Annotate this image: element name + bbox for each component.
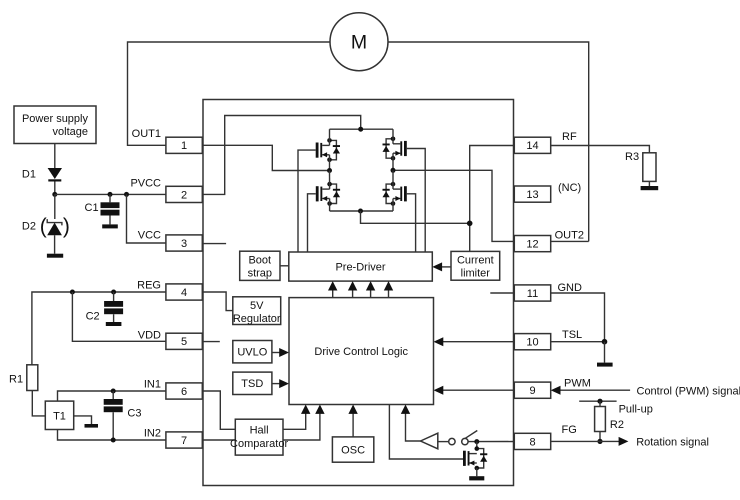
- svg-text:Rotation signal: Rotation signal: [636, 436, 709, 448]
- arrow into pre-driver 3: [366, 281, 375, 290]
- arrow into pre-driver 4: [384, 281, 393, 290]
- wire R3 to ground: [648, 181, 650, 186]
- diode D2 (zener, optional): [22, 215, 70, 254]
- svg-text:1: 1: [181, 140, 187, 152]
- wire pull-up supply bar: [579, 400, 616, 402]
- wire hall comparator out 1: [283, 413, 306, 430]
- wire OSC to logic: [352, 413, 354, 437]
- UVLO box U6: [233, 341, 272, 363]
- wire R1 to T1: [32, 391, 45, 416]
- Boot strap box U2: [240, 251, 280, 280]
- node pull-up top: [597, 399, 602, 404]
- arrow into pre-driver 1: [328, 281, 337, 290]
- arrow into logic (hall 1): [301, 405, 310, 414]
- wire PVCC internal feed: [202, 116, 360, 195]
- svg-text:R1: R1: [9, 374, 23, 386]
- wire current sense to node: [361, 211, 470, 223]
- wire Q3 gate: [407, 149, 425, 253]
- node VCC branch junction: [124, 192, 129, 197]
- svg-text:): ): [63, 215, 70, 238]
- wire logic to pre-driver 3: [370, 289, 372, 298]
- svg-text:D2: D2: [22, 221, 36, 233]
- wire FG node down to Q5: [476, 442, 478, 449]
- node current sense junction: [467, 221, 473, 227]
- Hall Comparator box U9: [230, 419, 288, 455]
- wire VDD internal stub: [202, 341, 220, 343]
- svg-text:RF: RF: [562, 131, 577, 143]
- switch S1: [449, 431, 478, 445]
- node C1 junction: [108, 192, 113, 197]
- ground below D2: [47, 254, 63, 258]
- wire Q3 source to mid node: [392, 153, 394, 170]
- svg-text:Hall: Hall: [250, 425, 269, 437]
- wire Q4 drain vertical: [392, 170, 394, 189]
- svg-text:IN2: IN2: [144, 428, 161, 440]
- node mid-right (OUT2): [391, 168, 396, 173]
- wire GND internal stub: [490, 292, 514, 294]
- pin 11: [514, 285, 550, 301]
- wire OUT1 internal to bridge: [202, 145, 329, 170]
- Drive Control Logic box U8: [289, 298, 434, 405]
- wire Q2 drain vertical: [329, 171, 331, 190]
- pin 5: [166, 333, 202, 349]
- transistor Q4 (bridge bottom-right): [383, 182, 407, 206]
- wire bridge top rail: [330, 128, 394, 130]
- wire current limiter to pre-driver: [442, 266, 451, 268]
- svg-text:FG: FG: [562, 424, 577, 436]
- svg-text:OUT2: OUT2: [555, 230, 584, 242]
- wire PWM internal to logic: [443, 389, 515, 391]
- wire T1 top to IN1 rail: [58, 391, 166, 401]
- node TSL junction: [602, 339, 608, 345]
- wire FG external: [551, 440, 619, 442]
- svg-text:5V: 5V: [250, 300, 264, 312]
- svg-text:12: 12: [526, 239, 538, 251]
- wire Q5 source to ground: [476, 468, 478, 476]
- wire Q1 source to mid node: [329, 155, 331, 171]
- transistor Q2 (bridge bottom-left): [316, 182, 340, 206]
- svg-text:(NC): (NC): [558, 182, 581, 194]
- wire T1 right to ground: [74, 416, 92, 424]
- wire IN1 internal to hall comparator: [202, 391, 235, 429]
- node VDD branch junction: [70, 290, 75, 295]
- svg-text:7: 7: [181, 435, 187, 447]
- wire TSL internal to logic: [443, 341, 515, 343]
- wire VCC internal stub: [202, 243, 226, 245]
- wire Q4 source to bottom rail: [392, 199, 394, 212]
- svg-text:VCC: VCC: [138, 229, 161, 241]
- pin 6: [166, 383, 202, 399]
- arrow into logic (OSC): [348, 405, 357, 414]
- ground at Q5: [469, 476, 484, 480]
- wire TSL to ground: [604, 342, 606, 363]
- transistor Q3 (bridge top-right): [383, 137, 407, 161]
- svg-text:limiter: limiter: [461, 267, 491, 279]
- arrow into logic (TSD): [279, 379, 289, 388]
- wire PVCC rail: [55, 193, 166, 195]
- svg-text:PVCC: PVCC: [130, 177, 161, 189]
- svg-text:Comparator: Comparator: [230, 438, 288, 450]
- wire Q4 gate: [407, 194, 416, 252]
- wire motor right to OUT2: [388, 42, 589, 241]
- 5V Regulator box U5: [233, 297, 281, 325]
- node C2 junction: [111, 290, 116, 295]
- capacitor C1: [85, 194, 120, 224]
- svg-text:strap: strap: [248, 267, 272, 279]
- svg-text:voltage: voltage: [53, 126, 88, 138]
- ground at T1: [85, 424, 99, 428]
- OSC box U10: [332, 437, 373, 462]
- pin 10: [514, 334, 550, 350]
- wire TSL external: [551, 341, 605, 343]
- svg-text:10: 10: [526, 337, 538, 349]
- hall element T1: [45, 401, 73, 429]
- pin 2: [166, 186, 202, 202]
- capacitor C3: [104, 391, 142, 440]
- svg-text:OSC: OSC: [341, 444, 365, 456]
- svg-text:Drive Control Logic: Drive Control Logic: [314, 346, 408, 358]
- svg-text:Power supply: Power supply: [22, 113, 89, 125]
- wire UVLO to logic: [272, 352, 281, 354]
- svg-text:R3: R3: [625, 151, 639, 163]
- arrow into logic (PWM): [434, 386, 444, 395]
- svg-text:Boot: Boot: [248, 254, 271, 266]
- capacitor C2: [86, 292, 124, 323]
- diode D1: [22, 168, 62, 182]
- svg-text:T1: T1: [53, 410, 66, 422]
- node bottom rail tap: [358, 209, 363, 214]
- buffer U11: [421, 433, 438, 449]
- node C3 top junction: [111, 389, 116, 394]
- wire VCC branch: [127, 194, 166, 243]
- pin 1: [166, 137, 202, 153]
- svg-text:C3: C3: [127, 408, 141, 420]
- wire buffer to switch: [438, 441, 449, 443]
- arrow rotation signal: [619, 437, 629, 446]
- wire Q1 gate: [298, 150, 316, 252]
- node mid-left (OUT1): [327, 168, 332, 173]
- svg-text:VDD: VDD: [138, 330, 161, 342]
- svg-text:REG: REG: [137, 280, 161, 292]
- wire IN2 internal to hall comparator: [202, 439, 235, 441]
- wire logic to pre-driver 4: [388, 289, 390, 298]
- arrow into logic (FG buffer): [401, 405, 410, 414]
- svg-text:2: 2: [181, 189, 187, 201]
- node C3 bottom junction: [111, 438, 116, 443]
- svg-text:IN1: IN1: [144, 379, 161, 391]
- arrow into pin 9: [551, 386, 561, 395]
- svg-text:6: 6: [181, 386, 187, 398]
- node FG junction: [474, 439, 479, 444]
- svg-text:OUT1: OUT1: [132, 128, 161, 140]
- svg-text:C1: C1: [85, 202, 99, 214]
- IC boundary box: [203, 100, 514, 486]
- wire R2 to FG line: [599, 432, 601, 442]
- svg-text:TSD: TSD: [241, 378, 263, 390]
- wire logic to pre-driver 1: [332, 289, 334, 298]
- wire VDD rail: [72, 292, 165, 341]
- wire control signal to PWM pin: [561, 389, 631, 391]
- svg-text:5: 5: [181, 336, 187, 348]
- wire bridge bottom rail: [330, 210, 393, 212]
- arrow into logic (UVLO): [279, 348, 289, 357]
- svg-text:(: (: [40, 215, 47, 238]
- arrow into logic (hall 2): [315, 405, 324, 414]
- wire Q2 source to bottom rail: [329, 199, 331, 212]
- wire GND external: [551, 293, 605, 342]
- ground at TSL: [597, 363, 613, 367]
- wire hall comparator out 2: [283, 413, 320, 441]
- svg-text:UVLO: UVLO: [237, 347, 267, 359]
- resistor R3: [625, 151, 656, 181]
- svg-text:R2: R2: [610, 419, 624, 431]
- pin 13: [514, 186, 550, 202]
- pin 12: [514, 236, 550, 252]
- node FG pull-up junction: [597, 439, 602, 444]
- svg-text:C2: C2: [86, 311, 100, 323]
- transistor Q5 (FG open drain): [463, 446, 487, 470]
- wire RF internal to sense node: [470, 146, 515, 252]
- svg-text:M: M: [351, 32, 367, 54]
- motor M1: [330, 13, 388, 71]
- wire OUT2 internal from bridge: [393, 170, 514, 241]
- wire REG internal to 5V regulator: [202, 292, 233, 311]
- Power supply voltage box: [14, 106, 96, 144]
- pin 3: [166, 235, 202, 251]
- ground below C2: [106, 322, 122, 326]
- svg-text:11: 11: [527, 288, 538, 300]
- pin 4: [166, 284, 202, 300]
- wire to D2: [54, 194, 56, 219]
- wire switch to FG pin: [468, 441, 514, 443]
- transistor Q1 (bridge top-left): [316, 138, 340, 162]
- wire RF external to R3: [551, 146, 650, 153]
- wire logic to pre-driver 2: [352, 289, 354, 298]
- svg-text:14: 14: [526, 140, 538, 152]
- arrow into logic (TSL): [434, 337, 444, 346]
- wire buffer to logic: [406, 413, 421, 442]
- arrow into pre-driver: [432, 262, 442, 271]
- Pre-Driver box U3: [289, 252, 433, 281]
- pin 9: [514, 382, 550, 398]
- svg-text:13: 13: [526, 189, 538, 201]
- TSD box U7: [233, 372, 272, 394]
- wire OUT2 pin to motor loop: [551, 240, 589, 242]
- svg-text:Control (PWM) signal: Control (PWM) signal: [637, 385, 740, 397]
- svg-text:Pull-up: Pull-up: [619, 404, 653, 416]
- wire Q3 drain vertical: [392, 129, 394, 144]
- svg-text:Current: Current: [457, 254, 494, 266]
- wire logic to FG gate: [389, 405, 463, 460]
- svg-text:9: 9: [529, 385, 535, 397]
- wire power supply to D1: [54, 144, 56, 169]
- wire TSD to logic: [272, 383, 281, 385]
- wire motor left to OUT1: [128, 42, 331, 145]
- pin 7: [166, 432, 202, 448]
- wire Q1 drain vertical: [329, 129, 331, 145]
- resistor R2: [595, 407, 624, 432]
- svg-text:3: 3: [181, 238, 187, 250]
- svg-text:Regulator: Regulator: [233, 313, 281, 325]
- svg-text:8: 8: [529, 436, 535, 448]
- Current limiter box U4: [451, 251, 500, 280]
- resistor R1: [9, 365, 38, 391]
- ground at R3: [641, 186, 659, 190]
- wire Q2 gate: [308, 194, 316, 252]
- arrow into pre-driver 2: [348, 281, 357, 290]
- wire REG rail: [32, 292, 166, 365]
- svg-text:TSL: TSL: [562, 329, 582, 341]
- svg-text:4: 4: [181, 287, 187, 299]
- wire boot strap to pre-driver: [280, 265, 289, 267]
- pin 8: [514, 433, 550, 449]
- ground below C1: [102, 224, 118, 228]
- wire D1 to PVCC node: [54, 182, 56, 195]
- svg-text:GND: GND: [558, 282, 583, 294]
- pin 14: [514, 137, 550, 153]
- node PVCC junction: [52, 192, 57, 197]
- wire T1 bottom to IN2 rail: [58, 430, 166, 441]
- node top rail tap: [358, 127, 363, 132]
- svg-text:Pre-Driver: Pre-Driver: [335, 261, 385, 273]
- svg-text:D1: D1: [22, 169, 36, 181]
- wire pull-up to R2: [599, 401, 601, 406]
- svg-text:PWM: PWM: [564, 378, 591, 390]
